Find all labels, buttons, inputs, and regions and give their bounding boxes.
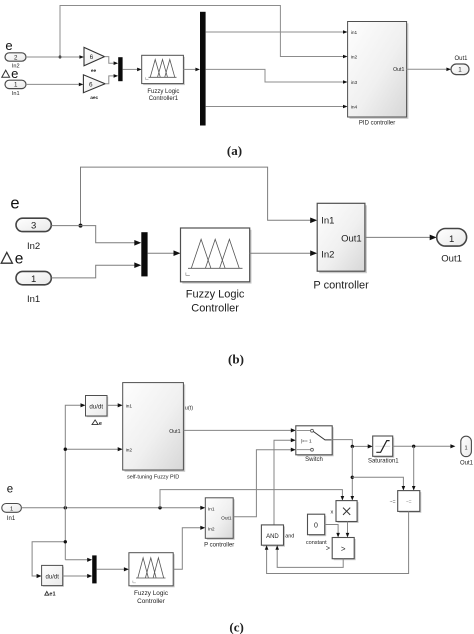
svg-text:1: 1 [31,274,36,285]
wire du/dt1 to mux input 2 (c) [63,575,88,577]
output port Out1 (c) [461,436,472,456]
svg-text:du/dt: du/dt [89,403,103,410]
svg-text:In1: In1 [12,91,20,97]
wire feedback sat-out down to compare (c) [413,446,415,486]
wire not-equal output to AND (c) [267,511,409,573]
svg-text:e: e [5,38,12,53]
svg-text:Saturation1: Saturation1 [368,459,399,465]
wire branch to du/dt1 (c) [32,542,65,576]
input port In2 (b) [16,218,51,231]
wire du/dt to in1 (c) [107,404,118,406]
gain ee (a) [84,47,105,65]
block Saturation1 (c) [374,438,394,458]
mux Mux (a) [118,57,122,81]
wire port 3 to mux (b) [51,226,135,243]
svg-text:self-tuning Fuzzy PID: self-tuning Fuzzy PID [127,475,179,481]
svg-text:AND: AND [266,534,279,540]
block product x (c) [338,502,359,523]
wire FLC to P controller In2 (c) [173,528,201,570]
svg-text:e: e [15,251,24,268]
svg-text:Out1: Out1 [441,254,462,265]
svg-text:(c): (c) [229,620,243,634]
svg-text:aec: aec [90,96,98,101]
svg-text:e: e [11,66,18,81]
block logical AND (c) [263,526,285,546]
svg-text:~=: ~= [406,499,412,505]
svg-text:Out1: Out1 [460,461,474,467]
label delta-e (c) [92,420,98,425]
svg-text:in2: in2 [126,447,133,453]
svg-text:Controller: Controller [137,598,166,605]
wire saturation to Out1 port (c) [393,445,451,447]
output port Out1 (b) [437,229,467,247]
wire PID controller to Out1 port (a) [407,68,447,70]
block Fuzzy Logic Controller (c) [130,554,174,587]
svg-text:1: 1 [464,445,467,451]
svg-text:0: 0 [314,523,318,530]
input port In1 (b) [16,271,51,284]
mux Mux (b) [141,232,147,276]
mux Mux (c) [92,555,96,583]
svg-text:6: 6 [90,54,94,61]
svg-text:In1: In1 [321,215,334,226]
node junction on e wire (b) [79,224,83,228]
wire P controller to Out1 port (b) [365,236,430,238]
wire greater-than output to AND (c) [277,550,343,568]
svg-text:du/dt: du/dt [46,575,60,581]
svg-text:In2: In2 [321,249,334,260]
svg-text:u(t): u(t) [185,406,193,412]
svg-text:in3: in3 [351,80,358,86]
svg-text:Out1: Out1 [393,67,404,73]
svg-text:Out1: Out1 [454,56,468,62]
svg-text:1: 1 [449,234,454,245]
svg-text:constant: constant [306,540,327,546]
wire product to greater-than (c) [347,522,349,534]
block Switch (c) [297,427,333,456]
gain aec (a) [83,75,105,93]
svg-text:P controller: P controller [313,280,369,292]
wire branch to mux input 1 (c) [65,559,88,561]
svg-text:Out1: Out1 [169,429,180,435]
wire port 1 to mux (b) [51,265,135,278]
label delta-e1 (c) [45,592,49,596]
subsystem P controller (c) [207,499,235,540]
svg-text:(b): (b) [228,352,244,367]
svg-text:Controller1: Controller1 [149,96,179,102]
svg-text:3: 3 [31,221,36,232]
annotation delta-e (a) [2,70,10,77]
svg-text:x: x [331,509,334,515]
wire demux to in4 (a) [206,106,344,108]
svg-text:in1: in1 [126,403,133,409]
svg-text:6: 6 [89,81,93,88]
wire gain ee to mux (a) [105,57,114,64]
svg-text:In1: In1 [208,506,215,512]
svg-text:and: and [285,534,294,540]
input port In1 (c) [2,504,22,513]
block relational operator not-equal (c) [399,492,421,513]
input port In1 (a) [5,80,26,88]
svg-text:In2: In2 [208,526,215,532]
svg-text:Out1: Out1 [341,233,362,244]
svg-text:in1: in1 [351,30,358,36]
svg-text:In2: In2 [27,241,40,252]
svg-text:|>= 1: |>= 1 [301,438,312,444]
subsystem PID controller (a) [349,23,408,119]
wire mux to Fuzzy Logic Controller (c) [97,568,125,570]
svg-text:In1: In1 [7,516,16,522]
block du/dt1 derivative (c) [43,567,64,587]
svg-text:in2: in2 [351,54,358,60]
node junction e/branch-up (c) [158,506,161,509]
svg-text:>: > [341,544,346,553]
wire e branch to product block (c) [160,490,342,508]
block constant 0 (c) [309,516,326,537]
node junction switch-out (c) [351,445,354,448]
svg-text:1: 1 [14,82,18,89]
node junction sat-out (c) [412,445,415,448]
svg-text:e: e [7,483,13,495]
wire constant to greater-than (c) [325,525,338,534]
annotation delta-e (b) [1,252,12,263]
subsystem self-tuning Fuzzy PID (c) [125,384,186,471]
svg-text:2: 2 [14,54,18,61]
svg-text:1: 1 [10,506,13,512]
wire FLC1 to demux (a) [183,68,195,70]
svg-text:Out1: Out1 [221,515,232,521]
svg-text:1: 1 [458,67,462,74]
wire In1 to gain aec [26,83,79,85]
wire e main line to P controller In1 (c) [21,507,201,509]
svg-text:ee: ee [91,69,97,74]
demux Demux (a) [200,12,206,126]
node junction on e wire (a) [59,56,62,59]
node junction e/vertical (c) [64,506,67,509]
svg-text:PID controller: PID controller [359,121,395,127]
svg-text:~=: ~= [390,499,396,505]
svg-text:>: > [326,546,330,553]
block Fuzzy Logic Controller1 (a) [143,57,185,85]
wire FLC to P controller In2 (b) [250,252,311,254]
wire e vertical up to du/dt (c) [65,405,81,560]
wire branch to in2 of self-tuning Fuzzy PID (c) [65,448,118,450]
svg-text:Fuzzy Logic: Fuzzy Logic [186,289,245,301]
wire P controller Out1 to switch input3 (c) [233,450,291,517]
svg-text:P controller: P controller [204,543,234,549]
wire switch output to saturation (c) [332,440,368,447]
block Fuzzy Logic Controller (b) [182,230,251,284]
svg-text:in4: in4 [351,104,358,110]
svg-text:e1: e1 [49,591,55,597]
wire mux to Fuzzy Logic Controller1 [123,68,138,70]
wire gain aec to mux (a) [105,76,114,84]
wire self-tuning PID Out1 to switch input1 (c) [183,429,291,431]
wire demux to in3 (a) [206,69,344,82]
wire demux to in1 (a) [206,31,344,33]
svg-text:e: e [10,195,19,213]
wire feedback e to In1 over top (b) [81,167,311,226]
svg-text:e: e [99,421,102,427]
block greater-than comparator (c) [334,539,356,560]
svg-text:Fuzzy Logic: Fuzzy Logic [134,590,169,597]
svg-text:In1: In1 [27,294,40,305]
wire feedback switch-out down to product and compare (c) [351,446,353,496]
wire feedback e to in2 over top (a) [60,6,343,58]
wire In2 to gain ee [26,56,79,58]
wire mux to Fuzzy Logic Controller (b) [148,252,174,254]
subsystem P controller (b) [319,205,367,273]
block du/dt derivative (c) [87,397,109,418]
wire AND to switch input2 control (c) [274,440,292,525]
svg-text:(a): (a) [227,143,242,158]
input port In2 (a) [5,53,26,61]
svg-text:Switch: Switch [305,457,323,463]
svg-text:Controller: Controller [191,303,239,315]
svg-text:Fuzzy Logic: Fuzzy Logic [147,89,179,95]
